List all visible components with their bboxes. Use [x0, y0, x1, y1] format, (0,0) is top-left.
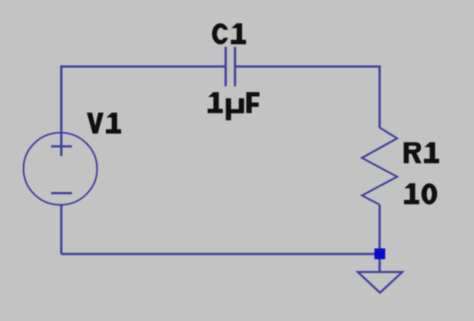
wire: V1 bottom down	[60, 205, 62, 254]
label C1	[212, 23, 246, 44]
wire: R1 bottom to ground flag	[378, 205, 380, 272]
voltage source V1	[24, 133, 98, 205]
node 0 junction square	[374, 248, 385, 259]
value label 1µF	[208, 92, 260, 120]
value label 10	[404, 183, 437, 204]
wire: V1 top up and across to C1 left plate	[61, 67, 225, 157]
label R1	[404, 142, 439, 163]
resistor R1	[362, 128, 397, 205]
wire: bottom run to ground node	[61, 253, 379, 255]
ground	[358, 272, 403, 293]
wire: C1 right plate across and down to R1 top	[235, 67, 380, 128]
label V1	[87, 113, 121, 134]
capacitor C1	[226, 47, 235, 86]
